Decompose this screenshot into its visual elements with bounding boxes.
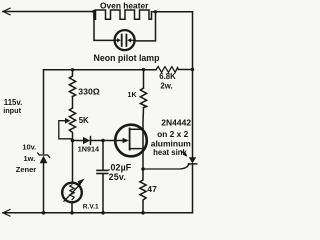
wire: emitter lead into UJT	[103, 140, 123, 142]
wire: UJT channel segment	[142, 129, 144, 148]
node: top-right junction	[154, 10, 157, 13]
wire: center rail from bus to 1K	[143, 70, 145, 88]
svg-text:1K: 1K	[128, 92, 137, 99]
svg-text:2w.: 2w.	[160, 81, 172, 90]
svg-text:1w.: 1w.	[24, 154, 36, 163]
svg-text:Oven heater: Oven heater	[100, 0, 149, 10]
UJT base bar	[129, 128, 131, 149]
capacitor lead bottom	[102, 174, 104, 213]
resistor 1K	[140, 88, 146, 108]
svg-text:R.V.1: R.V.1	[83, 203, 99, 210]
wire: top line from left arrow to heater	[3, 11, 94, 13]
svg-text:5K: 5K	[79, 116, 89, 125]
oven heater element	[94, 10, 156, 19]
node: mid bus / 1K	[142, 68, 145, 71]
variable resistor RV.1	[62, 183, 82, 203]
capacitor .02uF plates	[97, 169, 108, 171]
resistor 47	[140, 169, 146, 213]
svg-text:6.8K: 6.8K	[159, 72, 176, 81]
arrow: AC input top, pointing left	[3, 8, 10, 15]
node: bottom / capacitor	[101, 211, 105, 215]
node: bottom / left rail	[42, 211, 46, 215]
wire: 1K to UJT top	[142, 108, 145, 130]
svg-text:2N4442: 2N4442	[161, 118, 191, 128]
node: mid bus / right rail	[191, 68, 194, 71]
svg-text:Neon pilot lamp: Neon pilot lamp	[94, 53, 161, 63]
node: bottom / 47	[141, 211, 145, 215]
zener diode 10v 1w	[40, 156, 48, 164]
wire: left rail (corner down to zener)	[43, 70, 45, 154]
wire: top line from heater to top-right corner	[156, 11, 193, 13]
wire: right rail top (corner to 6.8K node)	[192, 12, 194, 70]
node: 5K bottom / wiper / diode / RV1	[71, 139, 75, 143]
wire: between 330 and 5K	[72, 97, 74, 109]
node: B1 / gate / 47 junction	[141, 167, 145, 171]
node: top-left junction	[92, 10, 95, 13]
wire: left rail (zener to bottom)	[43, 163, 45, 213]
diode 1N914	[73, 140, 84, 142]
svg-text:10v.: 10v.	[22, 143, 36, 152]
pointer arrow from heat-sink label to SCR	[181, 151, 185, 154]
potentiometer 5K	[69, 108, 75, 141]
neon pilot lamp	[115, 30, 135, 50]
svg-text:1N914: 1N914	[78, 145, 99, 154]
variable resistor RV.1 lead top	[72, 141, 74, 183]
svg-text:Zener: Zener	[16, 165, 37, 174]
node: bottom / RV.1	[70, 211, 74, 215]
svg-text:47: 47	[147, 184, 157, 194]
UJT base taps	[130, 129, 143, 148]
svg-text:input: input	[3, 106, 21, 115]
svg-text:on 2 x 2: on 2 x 2	[157, 129, 189, 139]
node: mid bus / 330 ohm	[71, 68, 74, 71]
resistor 330 ohm	[69, 70, 75, 97]
SCR 2N4442 (on right rail)	[192, 70, 194, 158]
5K wiper arm	[59, 121, 73, 139]
wire: SCR gate lead	[143, 165, 189, 170]
wire: mid horizontal bus y=69.5	[44, 69, 157, 71]
RV.1 lead bottom	[71, 202, 73, 213]
svg-text:heat sink: heat sink	[153, 148, 187, 157]
capacitor .02uF lead top	[102, 141, 104, 170]
wire: neon lamp branch left drop	[94, 12, 115, 41]
arrow: AC input bottom, pointing left	[3, 210, 10, 217]
node: gate/cap junction	[101, 139, 105, 143]
svg-text:25v.: 25v.	[109, 172, 126, 182]
resistor 6.8K (horizontal)	[156, 67, 179, 73]
wire: neon lamp branch right drop	[134, 12, 156, 41]
wire: UJT bottom to gate node	[142, 149, 144, 169]
transistor (UJT) circle	[115, 125, 147, 157]
wire: bottom line	[3, 212, 193, 214]
svg-text:330Ω: 330Ω	[78, 86, 99, 96]
